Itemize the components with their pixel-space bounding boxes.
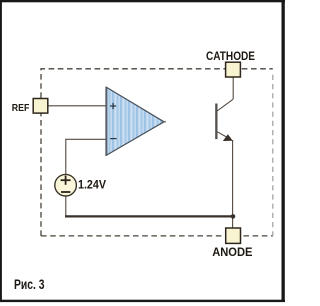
- wire op-amp inverting input to voltage source top: [66, 139, 106, 175]
- svg-text:1.24V: 1.24V: [78, 178, 106, 192]
- pad CATHODE: [226, 62, 241, 77]
- svg-text:CATHODE: CATHODE: [206, 49, 255, 63]
- svg-text:ANODE: ANODE: [212, 245, 252, 259]
- wire cathode pad to transistor collector: [232, 77, 234, 99]
- pad ANODE: [226, 228, 241, 243]
- wire REF pad to op-amp non-inverting input: [48, 105, 107, 107]
- voltage source 1.24V: [55, 174, 77, 196]
- junction on anode rail: [231, 214, 236, 219]
- svg-text:Рис. 3: Рис. 3: [14, 277, 45, 293]
- pad REF: [33, 99, 48, 114]
- wire voltage source bottom to anode rail: [65, 196, 67, 216]
- npn transistor: [215, 99, 233, 141]
- op-amp: [106, 87, 166, 156]
- svg-text:REF: REF: [12, 103, 30, 114]
- wire anode rail (horizontal): [65, 215, 233, 217]
- wire transistor emitter to anode pad: [232, 140, 234, 228]
- IC boundary dashed box: [41, 69, 273, 236]
